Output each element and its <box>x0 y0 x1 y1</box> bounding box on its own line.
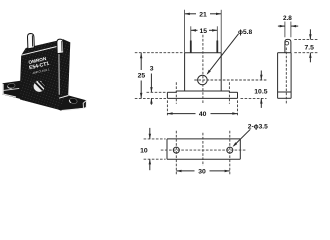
svg-text:40: 40 <box>199 111 207 118</box>
svg-text:10: 10 <box>140 147 148 154</box>
svg-text:3: 3 <box>150 66 154 73</box>
svg-text:ϕ5.8: ϕ5.8 <box>238 29 252 36</box>
svg-text:2.8: 2.8 <box>283 15 292 22</box>
svg-text:15: 15 <box>200 28 208 35</box>
svg-text:10.5: 10.5 <box>254 89 267 96</box>
svg-text:2-ϕ3.5: 2-ϕ3.5 <box>248 124 268 131</box>
svg-text:30: 30 <box>198 168 206 175</box>
svg-text:25: 25 <box>138 73 146 80</box>
svg-text:21: 21 <box>199 11 207 18</box>
svg-text:7.5: 7.5 <box>304 44 314 51</box>
